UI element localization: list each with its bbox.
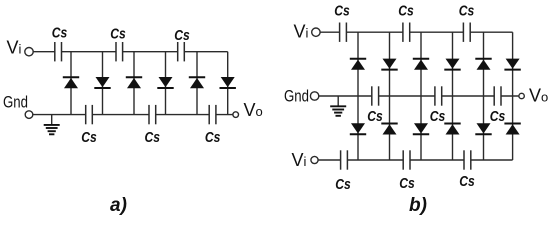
terminal Vi (circuit b top)	[312, 28, 320, 36]
capacitor Cs (b middle 2)	[435, 86, 442, 105]
svg-text:Cs: Cs	[459, 4, 475, 20]
svg-text:Cs: Cs	[367, 109, 383, 125]
wire b upper column 1	[357, 32, 359, 96]
capacitor Cs (a top 1)	[55, 42, 62, 61]
diode D1 (a, pointing up)	[63, 77, 79, 88]
svg-text:a): a)	[110, 195, 127, 216]
diode D2l (b lower, pointing up)	[381, 124, 397, 135]
wire b lower column 4	[452, 96, 454, 160]
diode D2 (a, pointing down)	[94, 77, 110, 88]
diode D4l (b lower, pointing up)	[444, 124, 460, 135]
wire a top rail segment 3	[123, 51, 178, 53]
capacitor Cs (a top 3)	[178, 42, 185, 61]
svg-text:Cs: Cs	[459, 174, 475, 190]
wire a top rail segment 2	[62, 51, 117, 53]
wire b middle rail segment 2	[379, 95, 435, 97]
wire b middle rail segment 1	[319, 95, 372, 97]
diode D6u (b upper, pointing down)	[504, 59, 520, 70]
terminal Gnd (circuit a)	[25, 111, 33, 119]
wire a column 3	[133, 52, 135, 115]
svg-text:Cs: Cs	[399, 176, 415, 192]
diode D3 (a, pointing up)	[126, 77, 142, 88]
diode D6l (b lower, pointing up)	[504, 124, 520, 135]
wire a bottom rail segment 4	[216, 114, 233, 116]
wire b bottom rail segment 2	[347, 159, 403, 161]
ground symbol (circuit b)	[330, 96, 346, 116]
ground symbol (circuit a)	[44, 115, 60, 135]
terminal Vi (circuit b bottom)	[311, 156, 318, 163]
capacitor Cs (b top 2)	[403, 23, 410, 42]
capacitor Cs (b middle 1)	[372, 86, 379, 105]
terminal Vo (circuit b)	[519, 93, 524, 98]
capacitor Cs (b bottom 1)	[341, 150, 348, 169]
wire a column 4	[165, 52, 167, 115]
wire b lower column 5	[483, 96, 485, 160]
terminal Vo (circuit a)	[233, 112, 239, 118]
terminal Vi (circuit a)	[25, 48, 33, 56]
wire a column 2	[102, 52, 104, 115]
svg-text:Cs: Cs	[145, 130, 161, 146]
svg-text:Gnd: Gnd	[3, 93, 28, 112]
capacitor Cs (a bottom 3)	[209, 105, 216, 124]
svg-text:Cs: Cs	[490, 109, 506, 125]
svg-text:Cs: Cs	[430, 109, 446, 125]
wire b bottom rail segment 1	[318, 159, 341, 161]
capacitor Cs (b bottom 2)	[403, 150, 410, 169]
wire b top rail segment 3	[410, 31, 464, 33]
wire b lower column 1	[357, 96, 359, 160]
diode D3l (b lower, pointing down)	[413, 123, 429, 134]
wire b lower column 6	[512, 96, 514, 160]
diode D5l (b lower, pointing down)	[475, 123, 491, 134]
svg-text:Cs: Cs	[81, 130, 97, 146]
wire b middle rail segment 3	[442, 95, 495, 97]
diode D4 (a, pointing down)	[157, 77, 173, 88]
svg-text:Cs: Cs	[205, 130, 221, 146]
svg-text:b): b)	[409, 195, 427, 216]
wire a column 1	[70, 52, 72, 115]
diode D2u (b upper, pointing down)	[381, 59, 397, 70]
svg-text:Cs: Cs	[398, 4, 414, 20]
svg-text:Cs: Cs	[334, 4, 350, 20]
diode D1u (b upper, pointing up)	[350, 59, 366, 70]
diode D1l (b lower, pointing down)	[350, 123, 366, 134]
wire a bottom rail segment 1	[33, 114, 86, 116]
wire b middle rail segment 4	[501, 95, 519, 97]
wire b top rail segment 2	[346, 31, 403, 33]
wire b lower column 2	[389, 96, 391, 160]
wire a bottom rail segment 3	[156, 114, 210, 116]
diode D5 (a, pointing up)	[189, 77, 205, 88]
capacitor Cs (b middle 3)	[494, 86, 501, 105]
diode D6 (a, pointing down)	[220, 77, 236, 88]
wire b bottom rail segment 4	[471, 159, 513, 161]
wire b upper column 3	[420, 32, 422, 96]
wire a column 6	[227, 52, 229, 115]
wire b top rail segment 4	[470, 31, 512, 33]
wire a bottom rail segment 2	[92, 114, 149, 116]
capacitor Cs (a bottom 1)	[86, 105, 93, 124]
wire b upper column 5	[483, 32, 485, 96]
svg-text:Cs: Cs	[335, 177, 351, 193]
diode D3u (b upper, pointing up)	[413, 59, 429, 70]
wire a column 5	[196, 52, 198, 115]
diode D4u (b upper, pointing down)	[444, 59, 460, 70]
wire b upper column 6	[512, 32, 514, 96]
capacitor Cs (a bottom 2)	[149, 105, 156, 124]
svg-text:Gnd: Gnd	[284, 87, 309, 106]
capacitor Cs (b top 1)	[340, 23, 347, 42]
wire b upper column 2	[389, 32, 391, 96]
wire a top rail segment 4	[184, 51, 227, 53]
svg-text:Cs: Cs	[52, 26, 68, 42]
terminal Gnd (circuit b)	[310, 92, 318, 100]
capacitor Cs (b bottom 3)	[464, 150, 471, 169]
capacitor Cs (b top 3)	[463, 23, 470, 42]
diode D5u (b upper, pointing up)	[475, 59, 491, 70]
wire a top rail segment 1	[33, 51, 55, 53]
wire b top rail segment 1	[320, 31, 340, 33]
capacitor Cs (a top 2)	[116, 42, 123, 61]
wire b bottom rail segment 3	[410, 159, 464, 161]
svg-text:Cs: Cs	[174, 28, 190, 44]
wire b lower column 3	[420, 96, 422, 160]
wire b upper column 4	[452, 32, 454, 96]
svg-text:Cs: Cs	[110, 27, 126, 43]
